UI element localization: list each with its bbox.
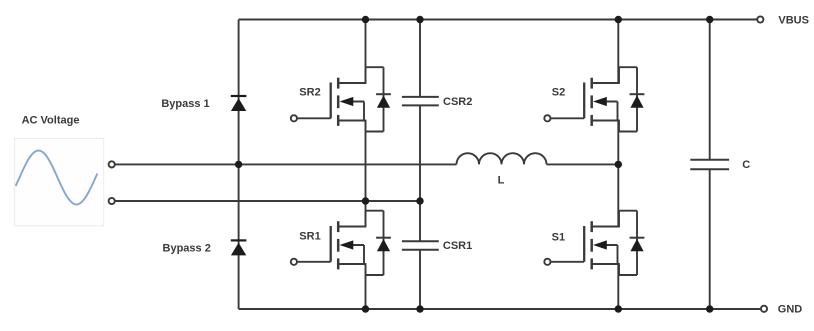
terminal VBUS bbox=[757, 16, 763, 22]
wire C bottom lead bbox=[709, 169, 711, 309]
svg-text:L: L bbox=[498, 174, 505, 186]
svg-text:Bypass 2: Bypass 2 bbox=[163, 243, 211, 255]
node top rail / SR leg bbox=[362, 16, 369, 23]
svg-text:SR2: SR2 bbox=[299, 86, 320, 98]
transistor SR1 bbox=[291, 211, 391, 275]
svg-text:Bypass 1: Bypass 1 bbox=[161, 98, 209, 110]
node AC line 2 / SR leg midpoint bbox=[362, 197, 369, 204]
node top rail / C leg bbox=[706, 16, 713, 23]
wire CSR2 bottom lead bbox=[419, 105, 421, 201]
capacitor CSR1 bbox=[402, 241, 439, 250]
node AC line 1 / S leg midpoint bbox=[615, 161, 622, 168]
inductor L bbox=[457, 153, 547, 164]
diode Bypass 2 bbox=[231, 240, 247, 255]
wire SR1 source lead bbox=[365, 264, 367, 310]
capacitor C bbox=[690, 160, 729, 170]
svg-text:CSR1: CSR1 bbox=[443, 240, 472, 252]
svg-text:S1: S1 bbox=[552, 231, 565, 243]
node bottom rail / S leg bbox=[615, 305, 622, 312]
terminal AC line 1 bbox=[109, 161, 115, 167]
wire AC line 2 bbox=[116, 200, 421, 202]
wire SR1 drain lead bbox=[365, 201, 367, 227]
wire C top lead bbox=[709, 20, 711, 160]
capacitor CSR2 bbox=[402, 97, 439, 106]
node AC line 1 / bypass leg bbox=[235, 161, 242, 168]
transistor S2 bbox=[544, 67, 644, 131]
transistor SR2 bbox=[291, 67, 391, 131]
svg-text:SR1: SR1 bbox=[299, 231, 320, 243]
svg-text:CSR2: CSR2 bbox=[443, 96, 472, 108]
node AC line 2 / CSR leg bbox=[416, 197, 423, 204]
svg-text:VBUS: VBUS bbox=[778, 14, 809, 26]
wire S2 source lead bbox=[617, 120, 619, 164]
terminal GND bbox=[761, 306, 767, 312]
wire AC line 1 right segment (inductor to S leg) bbox=[547, 163, 619, 165]
wire CSR1 top lead bbox=[419, 201, 421, 241]
wire S1 source lead bbox=[617, 264, 619, 310]
AC source box bbox=[15, 138, 104, 225]
AC source sine wave bbox=[16, 151, 97, 205]
wire S1 drain lead bbox=[617, 164, 619, 227]
wire top rail VBUS bbox=[239, 19, 757, 21]
svg-text:C: C bbox=[742, 159, 750, 171]
wire CSR1 bottom lead bbox=[419, 250, 421, 309]
diode Bypass 1 bbox=[231, 96, 247, 111]
svg-text:GND: GND bbox=[778, 304, 803, 316]
wire CSR2 top lead bbox=[419, 20, 421, 97]
wire bottom rail GND bbox=[239, 308, 761, 310]
terminal AC line 2 bbox=[109, 198, 115, 204]
node top rail / S leg bbox=[615, 16, 622, 23]
wire SR2 source lead bbox=[365, 120, 367, 201]
wire AC line 1 left segment bbox=[116, 163, 457, 165]
wire S2 drain lead bbox=[617, 20, 619, 84]
node bottom rail / CSR leg bbox=[416, 305, 423, 312]
node top rail / CSR leg bbox=[416, 16, 423, 23]
svg-text:S2: S2 bbox=[552, 86, 565, 98]
node bottom rail / SR leg bbox=[362, 305, 369, 312]
wire SR2 drain lead bbox=[365, 20, 367, 84]
svg-text:AC Voltage: AC Voltage bbox=[22, 115, 80, 127]
node bottom rail / C leg bbox=[706, 305, 713, 312]
wire bypass leg vertical bbox=[238, 20, 240, 310]
transistor S1 bbox=[544, 211, 644, 275]
